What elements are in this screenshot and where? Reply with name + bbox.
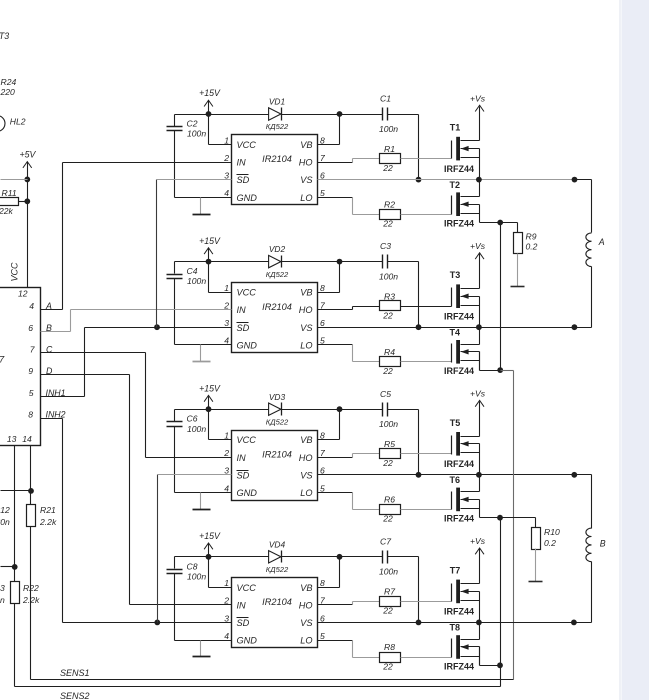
svg-text:VD4: VD4 xyxy=(269,539,286,549)
svg-text:R8: R8 xyxy=(384,642,395,652)
svg-text:VCC: VCC xyxy=(237,288,257,298)
wire R5 to T5 gate xyxy=(401,453,452,455)
wire rail diode to C5 (block 3) xyxy=(282,409,383,411)
svg-text:LO: LO xyxy=(300,636,312,646)
svg-text:R7: R7 xyxy=(384,587,396,597)
wire INH2 branch to U3 SD xyxy=(157,475,159,623)
wire VCC top rail (block 4) xyxy=(175,556,269,558)
svg-text:КД522: КД522 xyxy=(266,270,289,279)
wire pin 8 VB riser (block 1) xyxy=(339,115,341,145)
svg-text:3: 3 xyxy=(224,318,229,328)
svg-text:T4: T4 xyxy=(450,328,461,338)
svg-text:IRFZ44: IRFZ44 xyxy=(444,661,474,671)
wire VCC top rail (block 1) xyxy=(175,114,269,116)
node winding A top tap xyxy=(572,177,578,183)
wire net INH2 (pin 8 to U4 SD) xyxy=(41,418,63,420)
svg-text:6: 6 xyxy=(320,613,325,623)
wire net A (pin 4 to U1 IN) xyxy=(41,309,63,311)
node C7-VS junction (block 4) xyxy=(416,620,422,626)
node +15V junction (block 3) xyxy=(206,406,212,412)
svg-text:8: 8 xyxy=(320,283,325,293)
svg-text:VS: VS xyxy=(300,175,313,185)
svg-text:5: 5 xyxy=(320,188,325,198)
svg-text:GND: GND xyxy=(237,636,258,646)
svg-text:R10: R10 xyxy=(544,527,560,537)
wire T2 source to sense node A xyxy=(480,222,501,224)
svg-text:T2: T2 xyxy=(450,180,461,190)
svg-text:13: 13 xyxy=(7,434,17,444)
wire stub C12 (cut) xyxy=(1,490,31,492)
node INH2-SD3 junction xyxy=(154,620,160,626)
wire pin 5 LO to R2 (block 1) xyxy=(318,197,353,199)
svg-text:IR2104: IR2104 xyxy=(262,449,292,459)
wire pin 14 to R21 xyxy=(30,446,32,505)
node B2 rail taps xyxy=(571,620,577,626)
svg-text:22: 22 xyxy=(382,219,393,229)
svg-text:T5: T5 xyxy=(450,418,461,428)
svg-text:SENS1: SENS1 xyxy=(60,668,90,678)
svg-text:HL2: HL2 xyxy=(10,117,26,127)
svg-text:8: 8 xyxy=(320,431,325,441)
capacitor C8 xyxy=(174,557,176,569)
wire SENS1 xyxy=(31,679,514,681)
wire R7 to T7 gate xyxy=(401,601,452,603)
svg-text:IRFZ44: IRFZ44 xyxy=(444,164,474,174)
svg-text:2: 2 xyxy=(223,448,229,458)
driver IC IR2104 (block 1) xyxy=(232,135,318,205)
svg-text:C12: C12 xyxy=(0,505,10,515)
winding B xyxy=(591,475,593,529)
svg-text:8: 8 xyxy=(320,135,325,145)
svg-text:2.2k: 2.2k xyxy=(39,517,57,527)
svg-text:22: 22 xyxy=(382,366,393,376)
svg-text:4: 4 xyxy=(224,631,229,641)
svg-text:SENS2: SENS2 xyxy=(60,691,90,700)
wire net B (pin 6 to U2 IN) xyxy=(41,331,71,333)
svg-text:14: 14 xyxy=(22,434,32,444)
svg-text:+Vs: +Vs xyxy=(470,536,486,546)
wire stub C13 (cut) xyxy=(1,566,15,568)
wire rail diode to C7 (block 4) xyxy=(282,556,383,558)
wire pin 8 VB riser (block 3) xyxy=(339,410,341,440)
svg-text:VD2: VD2 xyxy=(269,244,286,254)
svg-text:2.2k: 2.2k xyxy=(22,595,40,605)
svg-text:IN: IN xyxy=(237,305,247,315)
svg-text:IN: IN xyxy=(237,453,247,463)
wire sense A vertical xyxy=(500,223,502,371)
svg-text:+15V: +15V xyxy=(199,383,221,393)
svg-text:22: 22 xyxy=(382,311,393,321)
node +15V junction (block 2) xyxy=(206,259,212,265)
svg-text:R2: R2 xyxy=(384,199,395,209)
wire R2 to T2 gate xyxy=(401,214,452,216)
capacitor C6 xyxy=(174,410,176,422)
ground (block 3) xyxy=(200,493,202,510)
svg-text:5: 5 xyxy=(29,388,34,398)
svg-text:100n: 100n xyxy=(379,567,398,577)
svg-text:HO: HO xyxy=(299,305,313,315)
wire pin 7 HO to R3 (block 2) xyxy=(318,309,353,311)
svg-text:IRFZ44: IRFZ44 xyxy=(444,459,474,469)
wire C3 drop to VS (block 2) xyxy=(418,262,420,328)
svg-text:VB: VB xyxy=(300,288,312,298)
svg-text:22: 22 xyxy=(382,458,393,468)
svg-text:A: A xyxy=(598,237,605,247)
node +15V junction (block 1) xyxy=(206,111,212,117)
node C3-VS junction (block 2) xyxy=(416,324,422,330)
svg-text:1: 1 xyxy=(224,283,229,293)
wire INH1 branch to U1 SD xyxy=(156,180,158,328)
wire C5 drop to VS (block 3) xyxy=(418,410,420,475)
wire C1 drop to VS (block 1) xyxy=(418,115,420,180)
svg-text:22k: 22k xyxy=(0,206,14,216)
svg-text:КД522: КД522 xyxy=(266,417,289,426)
svg-text:T3: T3 xyxy=(450,270,461,280)
svg-text:100n: 100n xyxy=(379,124,398,134)
node sense B top junction xyxy=(497,515,503,521)
svg-text:22: 22 xyxy=(382,514,393,524)
svg-text:C5: C5 xyxy=(380,389,391,399)
svg-text:100n: 100n xyxy=(379,271,398,281)
svg-text:IR2104: IR2104 xyxy=(262,597,292,607)
svg-text:+15V: +15V xyxy=(199,531,221,541)
resistor R21 xyxy=(27,505,36,527)
node pin14 tap xyxy=(28,488,34,494)
svg-text:1: 1 xyxy=(224,135,229,145)
svg-text:IRFZ44: IRFZ44 xyxy=(444,366,474,376)
svg-text:R22: R22 xyxy=(23,583,39,593)
ground (R9) xyxy=(517,254,519,287)
wire pin 1 VCC (block 4) xyxy=(208,557,210,588)
wire pin 7 HO to R5 (block 3) xyxy=(318,457,353,459)
wire pin 7 HO to R1 (block 1) xyxy=(318,162,353,164)
svg-text:22: 22 xyxy=(382,661,393,671)
node sense A top junction xyxy=(497,220,503,226)
svg-text:+Vs: +Vs xyxy=(470,389,486,399)
svg-text:C8: C8 xyxy=(187,561,198,571)
svg-text:IN: IN xyxy=(237,600,247,610)
svg-text:R5: R5 xyxy=(384,439,395,449)
wire R21 to SENS1 xyxy=(30,527,32,680)
svg-text:T7: T7 xyxy=(450,565,461,575)
wire VCC top rail (block 3) xyxy=(175,409,269,411)
svg-text:VCC: VCC xyxy=(237,583,257,593)
wire pin 1 VCC (block 3) xyxy=(208,410,210,440)
svg-text:IRFZ44: IRFZ44 xyxy=(444,607,474,617)
svg-text:VS: VS xyxy=(300,470,313,480)
svg-text:SD: SD xyxy=(237,618,250,628)
svg-text:IRFZ44: IRFZ44 xyxy=(444,514,474,524)
wire SENS2 xyxy=(15,686,501,688)
svg-text:5: 5 xyxy=(320,483,325,493)
wire sense A jog to SENS1 column xyxy=(501,370,514,372)
svg-text:IRFZ44: IRFZ44 xyxy=(444,219,474,229)
svg-text:R9: R9 xyxy=(526,232,537,242)
wire pin 4 GND (block 3) xyxy=(175,492,232,494)
svg-text:4: 4 xyxy=(224,188,229,198)
svg-text:R6: R6 xyxy=(384,495,395,505)
svg-text:IRFZ44: IRFZ44 xyxy=(444,312,474,322)
node winding B top tap xyxy=(571,472,577,478)
node C1-VS junction (block 1) xyxy=(416,177,422,183)
wire rail diode to C3 (block 2) xyxy=(282,261,383,263)
wire pin 5 LO to R6 (block 3) xyxy=(318,492,353,494)
svg-text:1: 1 xyxy=(224,431,229,441)
svg-text:100n: 100n xyxy=(0,595,5,605)
svg-text:LO: LO xyxy=(300,340,312,350)
svg-text:12: 12 xyxy=(18,289,28,299)
wire pin 4 GND (block 1) xyxy=(175,197,232,199)
wire net C (pin 7 to U3 IN) xyxy=(41,352,146,354)
svg-text:4: 4 xyxy=(29,301,34,311)
wire pin 8 VB riser (block 4) xyxy=(339,557,341,588)
wire pin 4 GND (block 2) xyxy=(175,344,232,346)
wire T8 source to sense node B xyxy=(479,647,481,666)
svg-text:6: 6 xyxy=(320,318,325,328)
wire VS rail (block 3) xyxy=(318,474,592,476)
svg-text:+Vs: +Vs xyxy=(470,241,486,251)
wire pin 5 LO to R8 (block 4) xyxy=(318,640,353,642)
wire R1 to T1 gate xyxy=(401,158,452,160)
capacitor C4 xyxy=(174,262,176,274)
wire pin 13 to R22 xyxy=(14,446,16,582)
node sense B lower junction xyxy=(497,662,503,668)
page background band (right) xyxy=(622,0,649,700)
wire pin 4 GND (block 4) xyxy=(175,640,232,642)
svg-text:VT3: VT3 xyxy=(0,31,9,41)
svg-text:LO: LO xyxy=(300,488,312,498)
node A2 rail taps xyxy=(572,324,578,330)
svg-text:C13: C13 xyxy=(0,583,5,593)
wire T4 source to sense node A xyxy=(479,352,481,371)
wire VS rail (block 1) xyxy=(318,179,575,181)
node VS-transistor junction (block 4) xyxy=(476,620,482,626)
svg-text:100n: 100n xyxy=(187,129,206,139)
svg-text:VS: VS xyxy=(300,323,313,333)
wire VCC riser to +5V xyxy=(27,163,29,288)
wire pin 5 LO to R4 (block 2) xyxy=(318,344,353,346)
svg-text:VB: VB xyxy=(300,583,312,593)
svg-text:100n: 100n xyxy=(187,276,206,286)
node VS-transistor junction (block 2) xyxy=(476,324,482,330)
svg-text:VB: VB xyxy=(300,140,312,150)
svg-text:R4: R4 xyxy=(384,347,395,357)
svg-text:+15V: +15V xyxy=(199,88,221,98)
svg-text:100n: 100n xyxy=(187,571,206,581)
svg-text:C4: C4 xyxy=(187,266,198,276)
wire phase A2 rail xyxy=(318,327,592,329)
wire R4 to T4 gate xyxy=(401,361,452,363)
svg-text:1: 1 xyxy=(224,578,229,588)
svg-text:VB: VB xyxy=(300,435,312,445)
node VS-transistor junction (block 3) xyxy=(476,472,482,478)
node VB rail junction (block 4) xyxy=(337,554,343,560)
node +15V junction (block 4) xyxy=(206,554,212,560)
node VS-transistor junction (block 1) xyxy=(476,177,482,183)
svg-text:8: 8 xyxy=(28,410,33,420)
wire pin 7 HO to R7 (block 4) xyxy=(318,604,353,606)
svg-text:+5V: +5V xyxy=(19,149,36,159)
wire sense B to SENS2 row xyxy=(500,666,502,687)
svg-text:HO: HO xyxy=(299,158,313,168)
svg-text:4: 4 xyxy=(224,483,229,493)
svg-text:GND: GND xyxy=(237,488,258,498)
svg-text:3: 3 xyxy=(224,613,229,623)
svg-text:HO: HO xyxy=(299,453,313,463)
svg-text:180n: 180n xyxy=(0,517,10,527)
svg-text:22: 22 xyxy=(382,163,393,173)
wire pin 1 VCC (block 2) xyxy=(208,262,210,293)
svg-text:100n: 100n xyxy=(187,424,206,434)
svg-text:T6: T6 xyxy=(450,475,461,485)
wire T6 source to sense node B xyxy=(480,517,501,519)
controller IC box xyxy=(0,288,41,446)
wire VCC top rail (block 2) xyxy=(175,261,269,263)
svg-text:C1: C1 xyxy=(380,94,391,104)
svg-text:2: 2 xyxy=(223,153,229,163)
svg-text:SD: SD xyxy=(237,470,250,480)
svg-text:+15V: +15V xyxy=(199,236,221,246)
svg-text:R24: R24 xyxy=(1,77,17,87)
svg-text:+Vs: +Vs xyxy=(470,93,486,103)
wire C7 drop to VS (block 4) xyxy=(418,557,420,623)
svg-text:R11: R11 xyxy=(2,188,17,198)
resistor R9 xyxy=(501,222,518,224)
svg-text:IR2104: IR2104 xyxy=(262,302,292,312)
wire R8 to T8 gate xyxy=(401,657,452,659)
svg-text:T8: T8 xyxy=(450,623,461,633)
svg-text:C2: C2 xyxy=(187,119,198,129)
ground (R10) xyxy=(535,549,537,582)
svg-text:VS: VS xyxy=(300,618,313,628)
svg-text:C3: C3 xyxy=(380,241,391,251)
node C5-VS junction (block 3) xyxy=(416,472,422,478)
svg-text:HO: HO xyxy=(299,600,313,610)
svg-text:VD1: VD1 xyxy=(269,97,285,107)
svg-text:C6: C6 xyxy=(187,414,198,424)
resistor R10 xyxy=(501,517,536,519)
node VB rail junction (block 2) xyxy=(337,259,343,265)
svg-text:6: 6 xyxy=(28,323,33,333)
svg-text:R21: R21 xyxy=(40,505,56,515)
svg-text:IR2104: IR2104 xyxy=(262,154,292,164)
node VB rail junction (block 1) xyxy=(337,111,343,117)
svg-text:VCC: VCC xyxy=(237,140,257,150)
wire stub left of +5V node xyxy=(1,179,28,181)
svg-text:0.2: 0.2 xyxy=(526,242,538,252)
node R11 junction xyxy=(24,198,30,204)
svg-text:8: 8 xyxy=(320,578,325,588)
svg-text:LO: LO xyxy=(300,193,312,203)
svg-text:0.2: 0.2 xyxy=(544,538,556,548)
node VB rail junction (block 3) xyxy=(337,406,343,412)
wire VS rail (block 2) xyxy=(318,327,592,329)
node pin13 tap xyxy=(12,564,18,570)
winding A xyxy=(591,180,593,233)
svg-text:5: 5 xyxy=(320,631,325,641)
driver IC IR2104 (block 4) xyxy=(232,578,318,648)
svg-text:КД522: КД522 xyxy=(266,565,289,574)
wire R22 to SENS2 xyxy=(14,604,16,687)
wire VS rail (block 4) xyxy=(318,622,592,624)
svg-text:R3: R3 xyxy=(384,291,395,301)
svg-text:SD: SD xyxy=(237,323,250,333)
wire pin 8 VB riser (block 2) xyxy=(339,262,341,293)
ground (block 2) xyxy=(200,345,202,362)
driver IC IR2104 (block 3) xyxy=(232,431,318,501)
svg-text:VD3: VD3 xyxy=(269,392,286,402)
wire R6 to T6 gate xyxy=(401,509,452,511)
svg-text:VCC: VCC xyxy=(237,435,257,445)
node INH1-SD1 junction xyxy=(154,324,160,330)
wire net D (pin 9 to U4 IN) xyxy=(41,374,130,376)
svg-text:GND: GND xyxy=(237,340,258,350)
svg-text:220: 220 xyxy=(0,87,15,97)
svg-text:T1: T1 xyxy=(450,123,461,133)
driver IC IR2104 (block 2) xyxy=(232,283,318,353)
svg-text:IN: IN xyxy=(237,158,247,168)
svg-text:100n: 100n xyxy=(379,419,398,429)
svg-text:C7: C7 xyxy=(380,536,392,546)
svg-text:9: 9 xyxy=(28,366,33,376)
wire net INH1 (pin 5 to U2 SD) xyxy=(41,396,85,398)
svg-text:B: B xyxy=(600,539,606,549)
svg-text:R1: R1 xyxy=(384,144,395,154)
wire R3 to T3 gate xyxy=(401,306,452,308)
resistor R22 xyxy=(11,582,20,604)
svg-text:КД522: КД522 xyxy=(266,122,289,131)
wire rail diode to C1 (block 1) xyxy=(282,114,383,116)
svg-text:VCC: VCC xyxy=(10,262,20,282)
wire phase B2 rail xyxy=(318,622,592,624)
svg-text:SD: SD xyxy=(237,175,250,185)
LED HL2 (cut) xyxy=(0,116,5,132)
svg-text:22: 22 xyxy=(382,606,393,616)
wire pin 1 VCC (block 1) xyxy=(208,115,210,145)
ground (block 1) xyxy=(200,198,202,215)
node +5V wire tap xyxy=(24,177,30,183)
wire sense B vertical xyxy=(500,518,502,666)
ground (block 4) xyxy=(200,641,202,657)
capacitor C2 xyxy=(174,115,176,127)
node sense A lower junction xyxy=(497,367,503,373)
svg-text:GND: GND xyxy=(237,193,258,203)
+5V supply arrow xyxy=(23,162,32,168)
